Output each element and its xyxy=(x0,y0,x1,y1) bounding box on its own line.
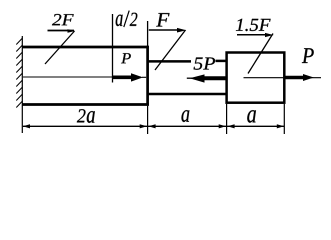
label P (internal force) xyxy=(121,53,131,63)
bar segment 2 (area F) outline xyxy=(148,61,227,94)
label 5P xyxy=(194,58,215,70)
bar segment 3 (area 1.5F) outline xyxy=(227,53,285,103)
wall support line xyxy=(21,36,23,133)
wall hatching xyxy=(16,38,22,108)
label a (right span) xyxy=(247,110,256,123)
step edge extension above bar xyxy=(147,21,149,46)
dimension line xyxy=(23,125,284,127)
force P at free end xyxy=(244,74,322,81)
label a/2 xyxy=(116,11,138,28)
dimension extension lines bottom xyxy=(148,104,285,134)
label 2F xyxy=(45,14,75,64)
force 5P arrow xyxy=(187,74,226,82)
dimension a/2 extension line xyxy=(112,14,114,83)
dimension arrowheads xyxy=(23,124,284,128)
bar segment 1 (area 2F) outline xyxy=(22,46,149,106)
label F xyxy=(149,13,187,70)
label 2a xyxy=(77,109,95,123)
force P at section (internal arrow) xyxy=(23,73,146,81)
label P (end force) xyxy=(302,48,314,63)
label 1.5F xyxy=(236,19,274,74)
label a (middle span) xyxy=(182,110,190,122)
